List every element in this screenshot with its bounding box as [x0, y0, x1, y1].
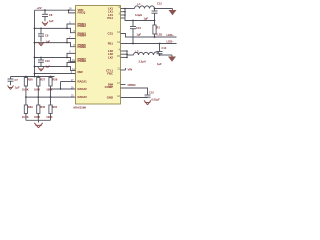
svg-text:C9: C9 [45, 34, 49, 38]
IC right pin labels [105, 7, 114, 100]
svg-text:1μF: 1μF [46, 39, 51, 43]
svg-text:1μF: 1μF [46, 65, 51, 69]
ground below C7 [8, 86, 14, 90]
svg-text:100K: 100K [34, 115, 40, 119]
resistor R30 [34, 97, 46, 120]
svg-text:REF: REF [78, 70, 84, 74]
capacitor C15 [145, 90, 161, 101]
wire L2 out [160, 54, 173, 56]
svg-text:0.2Ω: 0.2Ω [157, 32, 163, 36]
svg-text:VIN: VIN [128, 67, 133, 71]
svg-text:CS1: CS1 [108, 32, 114, 36]
svg-text:1μF: 1μF [157, 62, 162, 66]
resistor R28 [46, 77, 58, 98]
svg-text:FREQ: FREQ [78, 11, 87, 15]
wire GND pin [121, 97, 148, 99]
wire divider top rail [11, 76, 55, 78]
resistor R26 [22, 77, 34, 98]
node junction dot C10 tap [40, 57, 42, 59]
svg-text:LED–: LED– [167, 40, 175, 44]
capacitor C10 [38, 58, 51, 69]
wire divider bottom rail [26, 119, 51, 121]
svg-text:3.3μH: 3.3μH [135, 13, 142, 17]
svg-text:0.01μF: 0.01μF [152, 97, 161, 101]
node junction dot C8 tap [44, 9, 46, 11]
capacitor C8 [42, 10, 54, 23]
svg-text:1μF: 1μF [15, 85, 20, 89]
svg-text:3.3μH: 3.3μH [139, 60, 146, 64]
svg-text:1μF: 1μF [144, 16, 149, 20]
svg-text:LX2: LX2 [108, 55, 114, 59]
inductor L1 [135, 2, 155, 17]
svg-text:R31: R31 [53, 105, 58, 109]
svg-text:C8: C8 [49, 13, 53, 17]
IC U1 MAX1599 body [76, 6, 121, 105]
svg-text:PWM8: PWM8 [78, 59, 87, 63]
svg-text:OPEN: OPEN [128, 83, 136, 87]
svg-text:LED+: LED+ [167, 33, 175, 37]
svg-text:100K: 100K [34, 87, 40, 91]
wire PWM pair 1 [35, 27, 68, 29]
resistor R27 [34, 77, 46, 98]
svg-text:R1: R1 [157, 26, 161, 30]
capacitor C7 [8, 77, 21, 90]
svg-text:R26: R26 [28, 77, 33, 81]
resistor R29 [22, 97, 34, 120]
ground triangle mid right [168, 57, 176, 62]
wire LX2 bus [121, 50, 128, 52]
resistor R31 [46, 97, 58, 120]
svg-text:COMP: COMP [105, 85, 114, 89]
inductor L2 [134, 50, 160, 64]
wire RADJ2 row [51, 88, 76, 90]
svg-text:R28: R28 [53, 77, 58, 81]
wire COMP to C15 [121, 88, 148, 95]
svg-text:C14: C14 [162, 46, 167, 50]
wire DIM open stub [121, 84, 126, 86]
svg-text:C7: C7 [15, 78, 19, 82]
capacitor C9 [38, 28, 51, 43]
svg-text:C10: C10 [45, 59, 50, 63]
ground below C10 [38, 67, 44, 71]
wire FB1 to LED- [121, 43, 177, 45]
wire PWM pair 2 [35, 42, 68, 44]
wire LX1 bus [121, 8, 135, 10]
svg-text:1μF: 1μF [137, 33, 142, 37]
svg-text:FBC: FBC [107, 71, 113, 75]
capacitor C12 [144, 2, 163, 21]
IC left pin labels [78, 8, 88, 99]
svg-text:PG1: PG1 [107, 16, 113, 20]
svg-text:PWM6: PWM6 [78, 45, 87, 49]
wire RADJ3 mid rail row [26, 96, 76, 98]
wire PG1 rail junction dots [154, 20, 156, 22]
capacitor C14 [157, 44, 167, 67]
ground triangle top right [169, 10, 177, 15]
svg-text:C12: C12 [157, 2, 162, 6]
svg-text:FB1: FB1 [108, 42, 114, 46]
wire REF row [35, 73, 76, 75]
svg-text:C15: C15 [149, 90, 154, 94]
wire left supply rail vertical [34, 10, 36, 76]
wire RADJ1 row [61, 81, 76, 83]
svg-text:RADJ2: RADJ2 [78, 87, 88, 91]
wire CS1 to LED+ [121, 34, 177, 38]
ground below C15 [144, 100, 151, 105]
svg-text:C13: C13 [136, 26, 141, 30]
svg-text:1μF: 1μF [49, 19, 54, 23]
svg-text:PWM4: PWM4 [78, 34, 87, 38]
svg-text:RADJ1: RADJ1 [78, 80, 88, 84]
wire L1 out [155, 8, 173, 10]
svg-text:R27: R27 [40, 77, 45, 81]
wire FREQ jumper [69, 10, 76, 13]
svg-text:10.0K: 10.0K [22, 87, 29, 91]
wire VDD row [35, 9, 76, 11]
svg-text:100K: 100K [46, 115, 52, 119]
svg-text:+2V: +2V [37, 6, 42, 10]
wire PWM pair 3 [35, 57, 68, 59]
ground below C8 [42, 22, 48, 26]
svg-text:GND: GND [107, 96, 113, 100]
svg-text:R29: R29 [28, 105, 33, 109]
svg-text:RADJ3: RADJ3 [78, 95, 88, 99]
wire PWM pair 4 [35, 66, 68, 68]
ground divider bottom [34, 123, 42, 128]
resistor R1 current sense [153, 21, 162, 38]
capacitor C13 [130, 21, 142, 44]
svg-text:MAX1599: MAX1599 [74, 105, 87, 109]
svg-text:10.0K: 10.0K [22, 115, 29, 119]
ground below C9 [38, 42, 44, 46]
node junction dot C9 tap [40, 28, 42, 30]
svg-text:PWM2: PWM2 [78, 24, 87, 28]
wire CTL1 stub to VIN [121, 69, 126, 71]
svg-text:R30: R30 [40, 105, 45, 109]
